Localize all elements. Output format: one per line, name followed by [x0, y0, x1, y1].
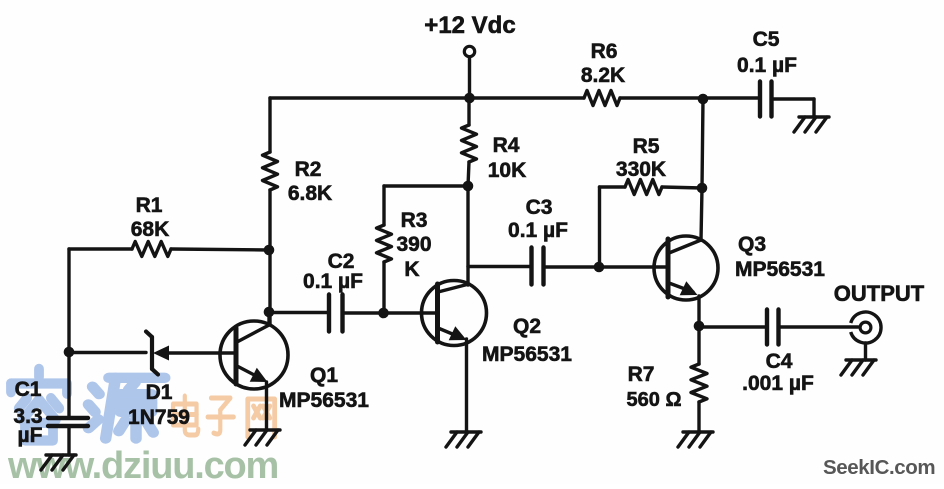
svg-text:8.2K: 8.2K	[581, 64, 625, 87]
wire R4 top	[467, 98, 470, 125]
wire C1 to ground	[67, 426, 70, 455]
svg-text:www.dziuu.com: www.dziuu.com	[7, 445, 278, 484]
+12 Vdc supply terminal	[464, 46, 474, 98]
svg-text:Q3: Q3	[738, 233, 766, 256]
watermark orange character wang	[248, 399, 275, 437]
capacitor C5	[760, 82, 772, 117]
svg-text:R4: R4	[493, 134, 520, 157]
svg-text:.001 µF: .001 µF	[742, 372, 814, 395]
capacitor C1 label	[13, 378, 42, 447]
svg-text:Q1: Q1	[310, 364, 338, 387]
wire R7 top	[697, 326, 700, 364]
wire R1 right	[171, 249, 269, 250]
svg-text:µF: µF	[18, 424, 43, 447]
svg-text:R7: R7	[628, 363, 655, 386]
svg-text:560 Ω: 560 Ω	[627, 389, 682, 411]
svg-text:MP56531: MP56531	[279, 389, 369, 412]
resistor R2	[263, 152, 278, 190]
wire R5 left	[600, 187, 626, 267]
capacitor C5 label	[737, 28, 797, 77]
svg-text:Q2: Q2	[513, 315, 541, 338]
svg-text:MP56531: MP56531	[735, 258, 825, 281]
resistor R7 label	[627, 363, 682, 411]
capacitor C4 label	[742, 350, 814, 395]
node R6/C5 junction	[698, 94, 709, 105]
wire Q3 emitter	[697, 296, 700, 326]
node R1/R2 junction	[264, 245, 275, 256]
svg-text:+12 Vdc: +12 Vdc	[424, 12, 515, 39]
ground Q2 emitter	[446, 432, 481, 447]
svg-text:C1: C1	[15, 378, 42, 401]
svg-text:10K: 10K	[488, 159, 527, 182]
svg-text:MP56531: MP56531	[482, 343, 572, 366]
wire R5 right	[662, 187, 702, 188]
node R5/Q3 base junction	[594, 262, 605, 273]
svg-text:OUTPUT: OUTPUT	[834, 281, 925, 306]
node R4/R3/Q2 collector junction	[463, 181, 474, 192]
wire node to D1	[69, 351, 146, 354]
wire R2 branch vertical	[268, 98, 271, 325]
capacitor C3 label	[508, 196, 568, 242]
output jack connector	[851, 312, 881, 343]
svg-text:SeekIC.com: SeekIC.com	[823, 456, 935, 479]
wire R1 left	[69, 247, 132, 250]
node supply/R4 junction	[464, 93, 475, 104]
node Q1 collector junction	[264, 307, 275, 318]
resistor R1 label	[131, 194, 170, 241]
watermark orange character dian	[173, 396, 198, 435]
wire Q1 collector to C2	[269, 311, 329, 314]
wire R3 bottom	[382, 262, 385, 313]
transistor Q1	[220, 321, 288, 389]
transistor Q1 label	[279, 364, 369, 412]
wire C2 to Q2 base	[343, 311, 438, 314]
capacitor C2	[329, 295, 343, 332]
svg-text:R6: R6	[591, 40, 618, 63]
wire R4 bottom	[468, 162, 469, 186]
capacitor C2 label	[303, 250, 363, 293]
watermark blue character yuan	[88, 378, 164, 439]
OUTPUT label	[834, 281, 925, 306]
node C1/D1 junction	[64, 347, 75, 358]
svg-text:1N759: 1N759	[128, 406, 190, 429]
svg-text:D1: D1	[146, 381, 173, 404]
resistor R3	[377, 225, 392, 262]
svg-text:390: 390	[396, 233, 431, 256]
capacitor C3	[532, 248, 544, 285]
svg-text:0.1 µF: 0.1 µF	[508, 219, 568, 242]
ground R7	[678, 432, 713, 447]
wire Q1 collector	[267, 312, 270, 325]
wire R3 top	[384, 186, 468, 225]
svg-text:C4: C4	[766, 350, 793, 373]
resistor R5	[625, 180, 662, 195]
wire Q3 collector	[701, 99, 703, 240]
ground Q1 emitter	[245, 430, 280, 445]
wire C4 to output jack	[779, 325, 859, 328]
resistor R1	[132, 242, 171, 257]
wire Q3 emitter to C4	[699, 325, 767, 328]
svg-text:R3: R3	[401, 209, 428, 232]
svg-text:C3: C3	[526, 196, 553, 219]
svg-text:R5: R5	[633, 135, 660, 158]
resistor R4	[462, 125, 477, 162]
transistor Q3	[654, 236, 718, 300]
svg-text:C5: C5	[753, 28, 780, 51]
svg-text:6.8K: 6.8K	[288, 182, 332, 205]
svg-text:R2: R2	[295, 158, 322, 181]
+12 Vdc label	[424, 12, 515, 39]
resistor R3 label	[396, 209, 431, 281]
watermark blue character rong	[11, 369, 67, 441]
wire left branch vertical	[67, 249, 70, 416]
svg-text:K: K	[404, 258, 419, 281]
ground C5	[794, 117, 829, 132]
wire C5 to ground	[772, 99, 815, 117]
svg-text:330K: 330K	[616, 158, 666, 181]
node R3/Q2 base junction	[378, 308, 389, 319]
wire Q2 collector	[466, 186, 469, 285]
diode D1 zener	[146, 332, 236, 375]
wire top supply bus	[270, 96, 760, 99]
svg-text:R1: R1	[136, 194, 163, 217]
wire Q2 collector to C3	[468, 265, 532, 268]
capacitor C1	[48, 418, 88, 426]
svg-text:68K: 68K	[131, 218, 170, 241]
node Q3 emitter/R7/C4 junction	[694, 321, 705, 332]
node R5/Q3 collector junction	[697, 183, 708, 194]
resistor R4 label	[488, 134, 527, 182]
capacitor C4	[767, 310, 779, 345]
resistor R6	[584, 91, 620, 106]
wire R7 bottom	[697, 402, 700, 432]
wire C3 to Q3 base	[544, 265, 669, 268]
svg-text:0.1 µF: 0.1 µF	[737, 54, 797, 77]
transistor Q2	[422, 281, 487, 346]
transistor Q2 label	[482, 315, 572, 366]
resistor R2 label	[288, 158, 332, 205]
ground C1	[41, 455, 76, 470]
resistor R7	[691, 364, 707, 402]
transistor Q3 label	[735, 233, 825, 281]
wire Q2 emitter	[465, 339, 468, 432]
resistor R5 label	[616, 135, 666, 181]
wire jack to ground	[864, 343, 867, 360]
diode D1 label	[128, 381, 190, 429]
watermark orange character zi	[208, 398, 234, 434]
svg-text:0.1 µF: 0.1 µF	[303, 270, 363, 293]
wire Q1 emitter	[265, 382, 268, 430]
resistor R6 label	[581, 40, 625, 87]
ground output jack	[841, 360, 876, 375]
